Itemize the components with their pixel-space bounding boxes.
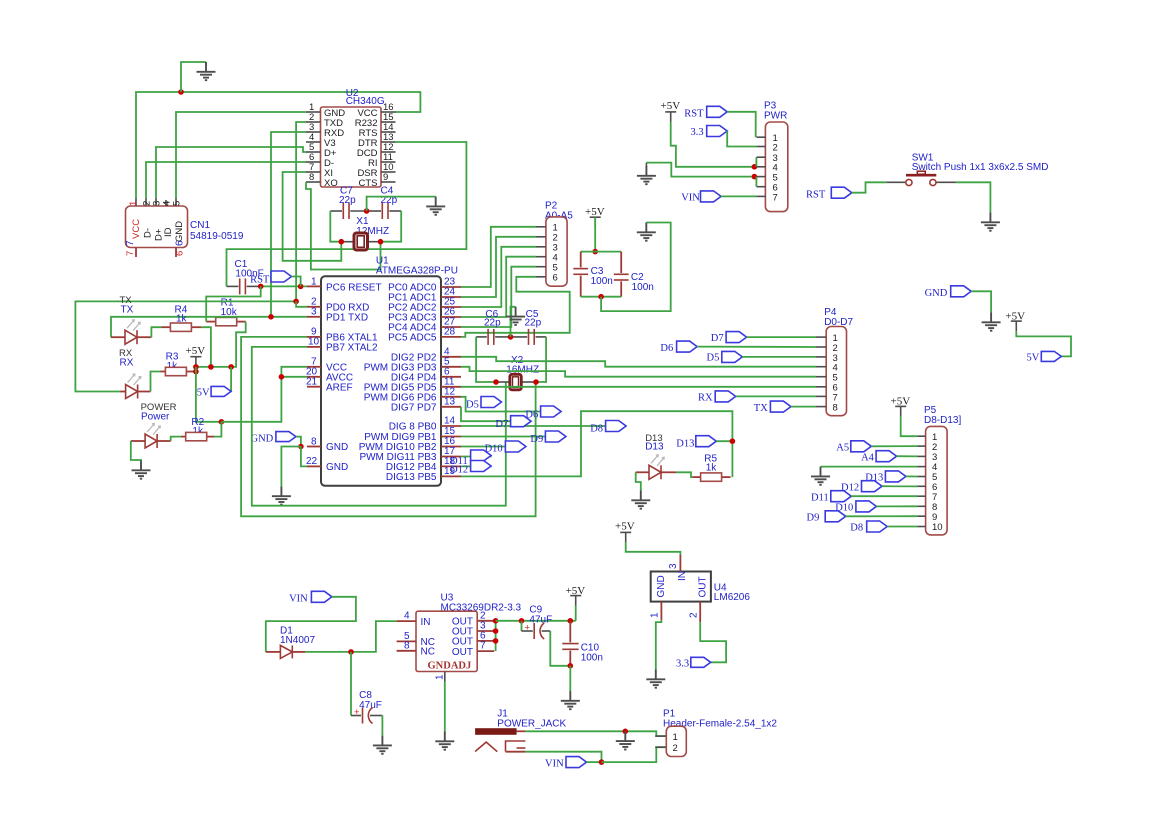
svg-text:D7: D7 — [711, 333, 724, 344]
wire R2 right up to +5V — [214, 422, 221, 437]
wire jack pin to VIN node — [525, 752, 601, 762]
node C10 top — [568, 618, 574, 624]
node U1 GND pin8 — [298, 444, 304, 450]
wire CN1 D- to U2 pin6 — [146, 162, 306, 198]
wire AVCC branch — [281, 376, 307, 378]
svg-text:D13: D13 — [645, 442, 664, 453]
resistor R5 1k — [692, 454, 730, 482]
svg-text:8: 8 — [311, 437, 317, 448]
svg-text:RST: RST — [806, 190, 826, 201]
header P2 A0-A5 — [536, 201, 573, 287]
wire XTAL2 pin10 to X2 left — [252, 347, 506, 506]
node X1 right pin — [378, 239, 384, 245]
net flag D10 near U1 — [485, 441, 526, 455]
wire ADC4 pin27 to P2.5 — [461, 267, 536, 327]
svg-text:+5V: +5V — [186, 345, 206, 357]
capacitor C4 22p — [367, 186, 402, 220]
net flag D5 at P4 — [707, 351, 817, 363]
svg-text:Power: Power — [141, 412, 170, 423]
wire pin16 to D10 flag — [461, 446, 505, 448]
svg-text:3: 3 — [311, 307, 317, 318]
wire U2 XO to X1 — [306, 182, 381, 270]
svg-text:13: 13 — [444, 397, 456, 408]
node jack ground — [623, 729, 629, 735]
net flag VIN at P3 — [681, 191, 756, 204]
wire D13 led to R5 — [676, 472, 692, 477]
svg-text:+: + — [354, 707, 360, 718]
node AVCC — [279, 374, 285, 380]
node U3 out2 — [493, 618, 499, 624]
wire VIN to P1.2 — [602, 747, 667, 762]
capacitor C2 100n — [614, 252, 654, 297]
svg-text:5V: 5V — [197, 388, 210, 399]
svg-text:22: 22 — [306, 456, 318, 467]
svg-text:OUT: OUT — [452, 647, 473, 658]
switch SW1 — [887, 153, 1049, 186]
svg-text:LM6206: LM6206 — [714, 592, 751, 603]
wire U2 DTR to C1 — [227, 142, 467, 286]
node D13 junction — [730, 438, 736, 444]
svg-text:28: 28 — [444, 327, 456, 338]
svg-text:VIN: VIN — [681, 193, 700, 204]
svg-text:4: 4 — [404, 611, 410, 622]
wire C6 left loop to X2 — [476, 337, 496, 382]
wire pin13 to D7 flag — [461, 407, 511, 421]
header P3 PWR — [757, 101, 788, 212]
svg-text:Switch Push 1x1 3x6x2.5 SMD: Switch Push 1x1 3x6x2.5 SMD — [912, 162, 1049, 173]
node X1 left pin — [339, 239, 345, 245]
IC U3 MC33269DR2-3.3 — [397, 593, 522, 682]
wire X1 right loop to C4 — [381, 211, 402, 242]
IC U1 ATMEGA328P-PU — [306, 256, 461, 486]
svg-text:TX: TX — [121, 305, 134, 316]
wire U3 out rail to +5V — [496, 620, 576, 622]
wire ground to P3 pins5/6 — [646, 163, 754, 177]
ground below C10 — [561, 691, 580, 709]
wire +5V to 5V flag — [1016, 331, 1071, 356]
wire C3/C2 bottom rail — [581, 296, 622, 298]
svg-text:RST: RST — [684, 109, 704, 120]
wire +5V to P3 pins3/4 — [671, 122, 755, 167]
svg-text:1: 1 — [435, 674, 446, 680]
net flag D7 at P4 — [711, 332, 816, 344]
svg-text:8: 8 — [404, 640, 410, 651]
ground right of C4 — [426, 197, 445, 215]
wire SW1 to ground — [956, 182, 990, 212]
svg-text:XO: XO — [324, 178, 338, 189]
wire +5V to U4 IN — [626, 542, 681, 555]
net flag RST at SW1 — [806, 182, 887, 200]
resistor R2 1k — [181, 417, 214, 441]
net flag D11 near U1 — [450, 450, 491, 467]
wire pin14 to D8 flag — [461, 425, 606, 427]
wire D2 pin4 to P4.4 — [461, 357, 816, 367]
power +5V at P5 — [891, 396, 911, 417]
net flag TX at P4 — [754, 401, 816, 414]
wire C7/C4 mid to ground — [367, 197, 436, 211]
net flag VIN at jack — [545, 757, 602, 770]
LED TX — [111, 320, 151, 344]
wire U2 TXD down — [296, 122, 306, 301]
svg-text:6: 6 — [175, 240, 186, 246]
header P1 Header-Female-2.54_1x2 — [655, 709, 777, 757]
svg-text:AREF: AREF — [326, 383, 353, 394]
svg-text:PB7 XTAL2: PB7 XTAL2 — [326, 343, 378, 354]
wire POWER led anode to ground — [131, 441, 141, 461]
svg-text:3.3: 3.3 — [676, 659, 689, 670]
wire ADC3 pin26 to P2.4 — [461, 257, 536, 317]
svg-text:100n: 100n — [591, 276, 613, 287]
power +5V above C3 — [585, 206, 605, 227]
svg-text:D9: D9 — [807, 513, 820, 524]
svg-text:10: 10 — [932, 522, 943, 533]
node RST attach on reset wire — [298, 284, 304, 290]
svg-text:1: 1 — [650, 612, 661, 618]
node D1/C8 — [348, 649, 354, 655]
net flag D6 at P4 — [660, 341, 816, 354]
wire +5V stem down to VCC rail — [196, 367, 222, 422]
svg-text:GNDADJ: GNDADJ — [428, 661, 472, 672]
capacitor C5 22p — [511, 309, 547, 345]
ground at P3 — [645, 163, 647, 167]
resistor R3 1k — [161, 352, 194, 376]
svg-text:DIG13 PB5: DIG13 PB5 — [386, 472, 437, 483]
wire U1 TXD row to TX led branch — [111, 317, 307, 337]
ground below U1 pin8 — [272, 486, 291, 504]
svg-text:NC: NC — [421, 647, 435, 658]
wire D5 pin11 to P4.6 — [461, 386, 816, 388]
svg-text:RX: RX — [698, 393, 713, 404]
node rail right end — [228, 364, 234, 370]
node C1 right — [258, 284, 264, 290]
svg-text:PD1 TXD: PD1 TXD — [326, 313, 368, 324]
net flag D8 at P5 — [850, 521, 917, 534]
svg-text:OUT: OUT — [698, 576, 709, 597]
wire U3 GNDADJ to ground — [444, 682, 446, 732]
svg-text:D5: D5 — [466, 400, 479, 411]
net flag RST — [250, 271, 301, 286]
wire pin18 to D12 flag — [461, 465, 492, 467]
power +5V at U3 — [566, 585, 586, 606]
wire 5V flag drop — [230, 367, 232, 392]
node R4 join — [208, 364, 214, 370]
node C10 bottom — [568, 663, 574, 669]
node C9 left — [519, 618, 525, 624]
net flag 3.3 at U4 — [676, 657, 711, 669]
svg-text:10: 10 — [308, 337, 320, 348]
wire D3 pin5 to P4.5 — [461, 367, 816, 377]
svg-text:54819-0519: 54819-0519 — [190, 231, 244, 242]
svg-text:2: 2 — [773, 143, 778, 154]
net flag D13 at R5 — [676, 436, 732, 450]
svg-text:1: 1 — [311, 277, 317, 288]
svg-text:CN1: CN1 — [190, 220, 210, 231]
svg-text:PC6 RESET: PC6 RESET — [326, 283, 382, 294]
wire RX led to R3 — [151, 372, 161, 392]
wire VCC top rail — [136, 92, 420, 198]
svg-text:A5: A5 — [836, 443, 849, 454]
node C7/C4 midpoint — [364, 208, 370, 214]
svg-text:D-: D- — [143, 228, 154, 238]
LED POWER — [131, 424, 171, 448]
svg-text:7: 7 — [773, 193, 778, 204]
wire XTAL1 pin9 to X2 right — [241, 337, 535, 516]
node junction top rail to ground — [178, 89, 184, 95]
svg-text:47uF: 47uF — [529, 615, 552, 626]
net flag 5V right — [1027, 351, 1062, 363]
node P3 pin5 — [752, 174, 758, 180]
node VIN — [599, 759, 605, 765]
wire GND pin8 to ground — [281, 447, 301, 487]
net flag VIN at regulator — [266, 591, 356, 652]
svg-text:VIN: VIN — [289, 594, 308, 605]
ground below U4 — [646, 670, 665, 688]
ground below C8 — [373, 736, 392, 754]
wire pin15 to D9 flag — [461, 436, 545, 438]
net flag 3.3 at P3 — [691, 126, 757, 147]
power +5V symbol left — [186, 345, 206, 367]
wire TX led to R4 — [151, 327, 161, 337]
wire pin17 to D11 flag — [461, 456, 492, 458]
wire +5V rail — [196, 366, 231, 368]
svg-text:7: 7 — [125, 251, 136, 256]
wire +5V to P5.1 — [901, 416, 918, 436]
net flag RST at P3 — [684, 106, 755, 137]
svg-text:22p: 22p — [484, 318, 501, 329]
net flag GND near U1 — [251, 432, 301, 447]
node C3 top — [592, 249, 598, 255]
wire U2 XI to X1 — [283, 172, 342, 261]
node U3 out3 — [493, 628, 499, 634]
IC U2 CH340G — [306, 88, 396, 189]
capacitor C8 47uF — [351, 690, 382, 724]
ground at jack — [616, 731, 635, 749]
ground below U3 — [435, 732, 454, 750]
resistor R1 10k — [206, 298, 246, 326]
wire X1 left loop to C7 — [330, 211, 341, 242]
net flag D12 near U1 — [450, 461, 491, 476]
svg-text:D8-D13]: D8-D13] — [924, 415, 961, 426]
svg-text:6: 6 — [553, 273, 558, 284]
svg-text:ATMEGA328P-PU: ATMEGA328P-PU — [376, 266, 458, 277]
svg-text:21: 21 — [306, 377, 318, 388]
svg-text:D11: D11 — [811, 493, 829, 504]
wire C1 to U1 pin1 — [261, 285, 307, 287]
net flag A5 at P5 — [836, 441, 917, 454]
resistor R4 1k — [162, 305, 202, 332]
capacitor C7 22p — [330, 186, 366, 220]
svg-text:PWR: PWR — [764, 111, 787, 122]
connector CN1 54819-0519 — [125, 198, 244, 257]
wire P3 pin3 tie — [755, 157, 757, 167]
net flag D12 at P5 — [841, 481, 917, 494]
wire U4 OUT to 3.3 flag — [700, 622, 726, 662]
svg-text:IN: IN — [677, 571, 688, 581]
net flag D11 at P5 — [811, 491, 917, 504]
wire R1 right to +5V rail — [231, 322, 246, 367]
ground below D13 led — [631, 491, 650, 509]
svg-text:+5V: +5V — [615, 521, 635, 533]
wire P5.4 to ground — [821, 466, 918, 468]
svg-text:GND: GND — [326, 442, 348, 453]
crystal X1 12MHZ — [341, 216, 389, 250]
svg-text:14: 14 — [444, 416, 456, 427]
wire C8 to ground — [381, 716, 383, 736]
net flag 5V — [197, 386, 231, 398]
wire CN1 GND to U2 pin1 — [176, 112, 306, 198]
svg-text:8: 8 — [833, 403, 838, 414]
svg-text:1N4007: 1N4007 — [280, 635, 315, 646]
node R2 top — [219, 419, 225, 425]
svg-text:+5V: +5V — [661, 100, 681, 112]
wire C3/C2 bottom to ground loop — [601, 223, 671, 312]
wire ADC2 pin25 to P2.3 — [461, 247, 536, 307]
wire TX net U1.RXD row to left loop — [75, 301, 296, 391]
jack J1 POWER_JACK — [475, 709, 566, 752]
node U3 out6 — [493, 638, 499, 644]
node X2 left — [493, 379, 499, 385]
power +5V right — [1005, 311, 1025, 332]
svg-text:CTS: CTS — [359, 178, 378, 189]
wire D1 to U3 IN — [305, 621, 396, 652]
wire TXD to U1 pin2 — [296, 301, 307, 306]
svg-text:RST: RST — [250, 275, 270, 286]
wire ADC0 pin23 to P2.1 — [461, 227, 536, 287]
svg-text:2: 2 — [673, 743, 678, 754]
svg-text:DIG 8 PB0: DIG 8 PB0 — [389, 422, 437, 433]
svg-text:GND: GND — [174, 221, 185, 242]
net flag D13 at P5 — [865, 471, 917, 484]
net flag GND right — [925, 286, 992, 313]
wire D13 pin19 long route — [461, 411, 732, 477]
svg-text:8: 8 — [309, 172, 314, 183]
wire +5V stem to rail — [575, 606, 577, 621]
net flag A4 at P5 — [861, 451, 917, 464]
svg-text:GND: GND — [251, 434, 274, 445]
svg-text:5V: 5V — [1027, 353, 1040, 364]
svg-text:5: 5 — [172, 201, 183, 206]
svg-text:+5V: +5V — [585, 206, 605, 218]
capacitor C1 100nF — [227, 259, 264, 294]
wire D13 led anode to ground — [636, 472, 641, 490]
svg-text:6: 6 — [175, 251, 186, 256]
svg-text:+: + — [525, 623, 531, 634]
svg-text:9: 9 — [383, 172, 388, 183]
svg-text:3.3: 3.3 — [691, 127, 704, 138]
capacitor C9 47uF — [522, 605, 553, 640]
net flag D9 at P5 — [807, 511, 918, 524]
svg-text:CH340G: CH340G — [346, 96, 385, 107]
wire jack sleeve to P1.1 — [525, 731, 666, 736]
svg-text:PC5 ADC5: PC5 ADC5 — [388, 333, 437, 344]
wire C6/C5 mid to ground — [511, 307, 516, 337]
wire node down to C8 — [350, 652, 352, 716]
svg-text:GND: GND — [925, 288, 948, 299]
U3 outputs tie bus — [495, 621, 497, 651]
svg-text:D9: D9 — [530, 434, 543, 445]
wire +5V to C3/C2 top rail — [594, 217, 596, 251]
svg-text:1k: 1k — [706, 463, 718, 474]
svg-text:D12: D12 — [450, 465, 468, 476]
net flag D9 near U1 — [530, 431, 566, 445]
node X2 right — [533, 379, 539, 385]
capacitor C3 100n — [573, 252, 613, 297]
svg-text:D6: D6 — [660, 343, 673, 354]
wire GND pin8 to pin22 — [301, 447, 307, 467]
ground at SW1 — [981, 213, 1000, 231]
wire POWER led to R2 — [171, 437, 181, 441]
capacitor C6 22p — [476, 309, 510, 345]
net flag RX at P4 — [698, 391, 816, 404]
svg-text:A4: A4 — [861, 453, 875, 464]
wire R4 to +5V rail — [201, 327, 211, 367]
svg-text:1: 1 — [128, 201, 139, 206]
IC U4 LM6206 — [650, 555, 751, 622]
header P5 D8-D13] — [917, 405, 961, 535]
diode D1 1N4007 — [266, 626, 316, 659]
node C3/C2 bottom — [598, 294, 604, 300]
ground between C6/C5 — [506, 307, 525, 325]
svg-text:D8: D8 — [590, 424, 603, 435]
wire R1 left to reset node — [206, 286, 261, 321]
wire ADC5 pin28 to P2.6 — [461, 277, 570, 337]
svg-text:7: 7 — [480, 641, 486, 652]
svg-text:100n: 100n — [581, 653, 603, 664]
wire C5 right loop to X2 — [536, 337, 546, 382]
ground at P5.4 — [811, 467, 830, 485]
node R3 join — [193, 369, 199, 375]
svg-text:100n: 100n — [632, 282, 654, 293]
LED RX — [120, 374, 150, 398]
wire P3 pin6 tie — [755, 177, 757, 187]
node TXD joins pin2 — [293, 299, 299, 305]
svg-text:D8: D8 — [850, 523, 863, 534]
ground below POWER led — [132, 461, 151, 479]
net flag D6 near U1 — [525, 406, 561, 421]
wire to top ground — [181, 62, 206, 92]
svg-text:ID: ID — [163, 227, 174, 237]
svg-text:7: 7 — [125, 240, 136, 246]
header P4 D0-D7 — [816, 307, 854, 416]
net flag D8 near U1 — [590, 421, 626, 435]
net flag D5 near U1 — [466, 397, 502, 411]
wire pin12 to D6 flag — [461, 397, 541, 412]
svg-text:POWER_JACK: POWER_JACK — [497, 719, 566, 730]
net flag D7 near U1 — [495, 416, 531, 430]
svg-text:GND: GND — [656, 575, 667, 597]
svg-text:22p: 22p — [339, 195, 356, 206]
svg-text:D13: D13 — [676, 439, 694, 450]
LED D13 — [636, 455, 676, 479]
wire ADC1 pin24 to P2.2 — [461, 237, 536, 297]
svg-text:IN: IN — [421, 617, 431, 628]
node C6/C5 mid — [508, 334, 514, 340]
ground top-left — [197, 62, 216, 80]
svg-text:VCC: VCC — [131, 219, 142, 239]
svg-text:GND: GND — [326, 462, 348, 473]
svg-text:RX: RX — [120, 358, 134, 369]
net flag D10 at P5 — [835, 501, 917, 514]
wire U4 GND to ground — [656, 620, 662, 669]
svg-text:1: 1 — [673, 732, 678, 743]
wire CN1 D+ to U2 pin5 — [156, 147, 306, 198]
wire C3/C2 top rail — [581, 251, 622, 253]
power +5V at P3 — [661, 100, 681, 122]
node RXD joins pin3 wire — [268, 314, 274, 320]
wire +5V to U1 VCC/AVCC — [221, 367, 307, 422]
svg-text:D7: D7 — [495, 419, 508, 430]
power +5V at U4 — [615, 521, 635, 543]
